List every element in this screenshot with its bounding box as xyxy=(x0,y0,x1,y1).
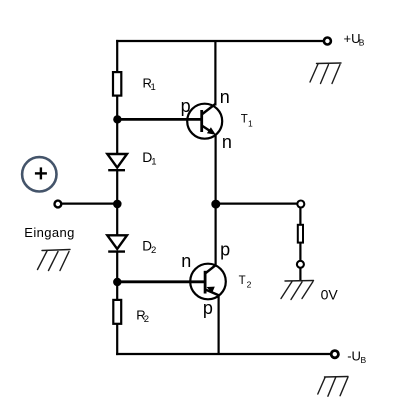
svg-text:T: T xyxy=(239,275,246,287)
svg-text:B: B xyxy=(359,38,365,48)
svg-text:2: 2 xyxy=(144,314,149,325)
wire base T1 xyxy=(117,118,202,121)
wire top rail xyxy=(116,40,323,42)
svg-text:2: 2 xyxy=(247,279,252,289)
ground hatch near +UB xyxy=(310,63,341,84)
svg-text:n: n xyxy=(181,251,191,271)
wire output xyxy=(216,203,297,205)
svg-text:0V: 0V xyxy=(321,287,339,303)
svg-text:p: p xyxy=(220,240,230,260)
transistor T2 (pnp) xyxy=(190,264,226,300)
wire T2 collector from output node xyxy=(215,204,217,266)
terminal -UB xyxy=(331,351,338,358)
ground hatch near Eingang xyxy=(38,250,71,271)
terminal output lower xyxy=(297,261,304,268)
wire input xyxy=(61,203,117,205)
node junction D2/base T2 xyxy=(113,278,121,286)
resistor load xyxy=(298,225,303,243)
terminal +UB xyxy=(324,38,331,45)
wire base T2 xyxy=(117,280,205,283)
svg-text:1: 1 xyxy=(248,118,253,128)
svg-text:p: p xyxy=(203,298,213,318)
wire T1 emitter to output node xyxy=(215,135,217,204)
svg-text:n: n xyxy=(222,132,232,152)
wire T1 collector xyxy=(214,41,216,106)
svg-text:1: 1 xyxy=(151,156,156,167)
resistor R1 xyxy=(113,72,121,96)
wire R1 to D1 xyxy=(116,96,118,155)
wire lower terminal to ground hatch xyxy=(299,268,301,282)
node input junction xyxy=(113,200,122,209)
node output junction xyxy=(211,200,220,209)
svg-text:2: 2 xyxy=(151,245,156,256)
svg-text:B: B xyxy=(361,355,367,365)
svg-text:p: p xyxy=(181,96,191,116)
svg-text:1: 1 xyxy=(151,82,156,93)
wire D2 to R2 xyxy=(116,251,118,300)
svg-text:T: T xyxy=(241,113,248,125)
svg-text:Eingang: Eingang xyxy=(24,225,75,240)
wire D1 to D2 xyxy=(116,169,118,236)
wire R2 to bottom rail xyxy=(116,324,118,355)
ground hatch 0V xyxy=(281,281,314,300)
wire T2 emitter to bottom rail xyxy=(218,295,220,355)
diode D1 xyxy=(107,154,127,170)
svg-text:n: n xyxy=(220,87,230,107)
svg-text:-U: -U xyxy=(347,348,361,363)
terminal output upper xyxy=(297,201,304,208)
ground hatch near -UB xyxy=(318,377,348,397)
source symbol (circle with plus) xyxy=(22,157,56,191)
wire left branch upper xyxy=(116,40,118,72)
wire bottom rail xyxy=(116,353,330,355)
diode D2 xyxy=(107,235,127,251)
node junction R1/base T1 xyxy=(113,115,121,123)
resistor R2 xyxy=(113,300,121,324)
wire load resistor to lower terminal xyxy=(299,243,301,261)
wire terminal to load resistor xyxy=(299,207,301,224)
transistor T1 (npn) xyxy=(187,104,222,139)
terminal input xyxy=(55,201,62,208)
